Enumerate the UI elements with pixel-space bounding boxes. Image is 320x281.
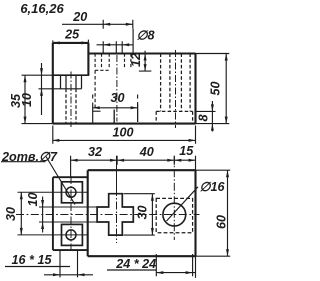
svg-text:100: 100	[112, 126, 133, 140]
svg-text:30: 30	[110, 91, 124, 105]
svg-text:∅16: ∅16	[200, 180, 226, 194]
dimension 60	[196, 170, 231, 256]
svg-text:8: 8	[197, 114, 211, 121]
O16 centerline (front view)	[175, 50, 177, 128]
svg-text:16 * 15: 16 * 15	[12, 253, 53, 267]
counterbore bottom edge	[39, 88, 82, 90]
svg-text:10: 10	[20, 93, 34, 107]
O16 centerline vertical	[173, 156, 175, 240]
svg-text:30: 30	[4, 207, 18, 221]
svg-text:24 * 24: 24 * 24	[115, 257, 156, 271]
dimension 100	[52, 126, 195, 144]
front view outline	[53, 43, 196, 124]
dimension 10 (front)	[40, 63, 43, 115]
dimension 8 (front right)	[196, 101, 216, 132]
hole circle 2	[66, 230, 76, 240]
slot arm edges to tab	[39, 207, 97, 222]
dimension 50	[196, 54, 230, 124]
hole centerline vertical	[70, 176, 72, 250]
svg-text:15: 15	[179, 144, 194, 158]
hidden slot edge (front view)	[94, 70, 96, 108]
slot vertical centerline	[116, 156, 118, 188]
svg-text:10: 10	[26, 192, 40, 206]
hidden hole bottom (front view)	[95, 69, 109, 71]
svg-text:6,16,26: 6,16,26	[20, 1, 64, 16]
dimension 25 arrows on block top	[53, 40, 89, 48]
hole centerline horizontal 1	[18, 191, 89, 193]
bottom view tab	[53, 177, 88, 250]
dimension 24x24	[107, 254, 196, 278]
recess square 24x24 dashed	[156, 198, 192, 232]
svg-text:20: 20	[72, 10, 87, 24]
svg-text:30: 30	[135, 205, 149, 219]
slot left edge (front view)	[92, 95, 94, 124]
slot right edge (front view)	[113, 110, 115, 124]
dimension 30 (front)	[93, 95, 138, 123]
boss square 2	[62, 224, 83, 245]
svg-text:50: 50	[209, 81, 223, 95]
hole centerline horizontal 2	[18, 234, 89, 236]
dimension 20	[62, 20, 133, 29]
O16 leader	[167, 187, 199, 221]
leader 2 holes O7	[1, 157, 75, 205]
cross slot	[97, 194, 133, 235]
counterbore walls (front view)	[61, 75, 82, 89]
extension line right of slot	[137, 104, 139, 122]
hole circle 1	[66, 187, 76, 197]
svg-text:32: 32	[88, 145, 102, 159]
slot top dash (front view)	[93, 110, 101, 112]
boss square 1	[62, 182, 83, 203]
hole centerline (front view left)	[70, 72, 72, 128]
svg-text:60: 60	[214, 215, 228, 229]
svg-text:∅8: ∅8	[137, 29, 155, 43]
front view internal shelf edge	[53, 74, 89, 76]
O16 circle	[163, 203, 186, 226]
hidden O16 hole lines (front view)	[161, 54, 191, 112]
dimension O8 ticks line	[97, 29, 134, 54]
svg-text:2отв.∅7: 2отв.∅7	[1, 150, 58, 164]
hidden hole lines O7 (front view)	[66, 89, 76, 124]
dimension 12	[139, 51, 151, 71]
dimension 30 (bottom left)	[20, 192, 23, 235]
dimension 35	[22, 75, 53, 123]
svg-text:40: 40	[139, 145, 154, 159]
svg-text:25: 25	[64, 27, 80, 41]
dimension 10 (bottom left)	[41, 197, 44, 233]
main horizontal centerline	[16, 214, 200, 216]
hidden hole stubs under top surface	[95, 54, 131, 69]
center axis (front view middle)	[116, 55, 118, 122]
bottom view main body	[88, 170, 196, 256]
hidden recess 24x24 (front view)	[156, 111, 192, 123]
dimension 16x15	[5, 250, 93, 277]
chain dimension 32 40 15	[71, 156, 196, 177]
dimension 30 (bottom right)	[124, 194, 155, 235]
svg-text:12: 12	[129, 53, 143, 67]
